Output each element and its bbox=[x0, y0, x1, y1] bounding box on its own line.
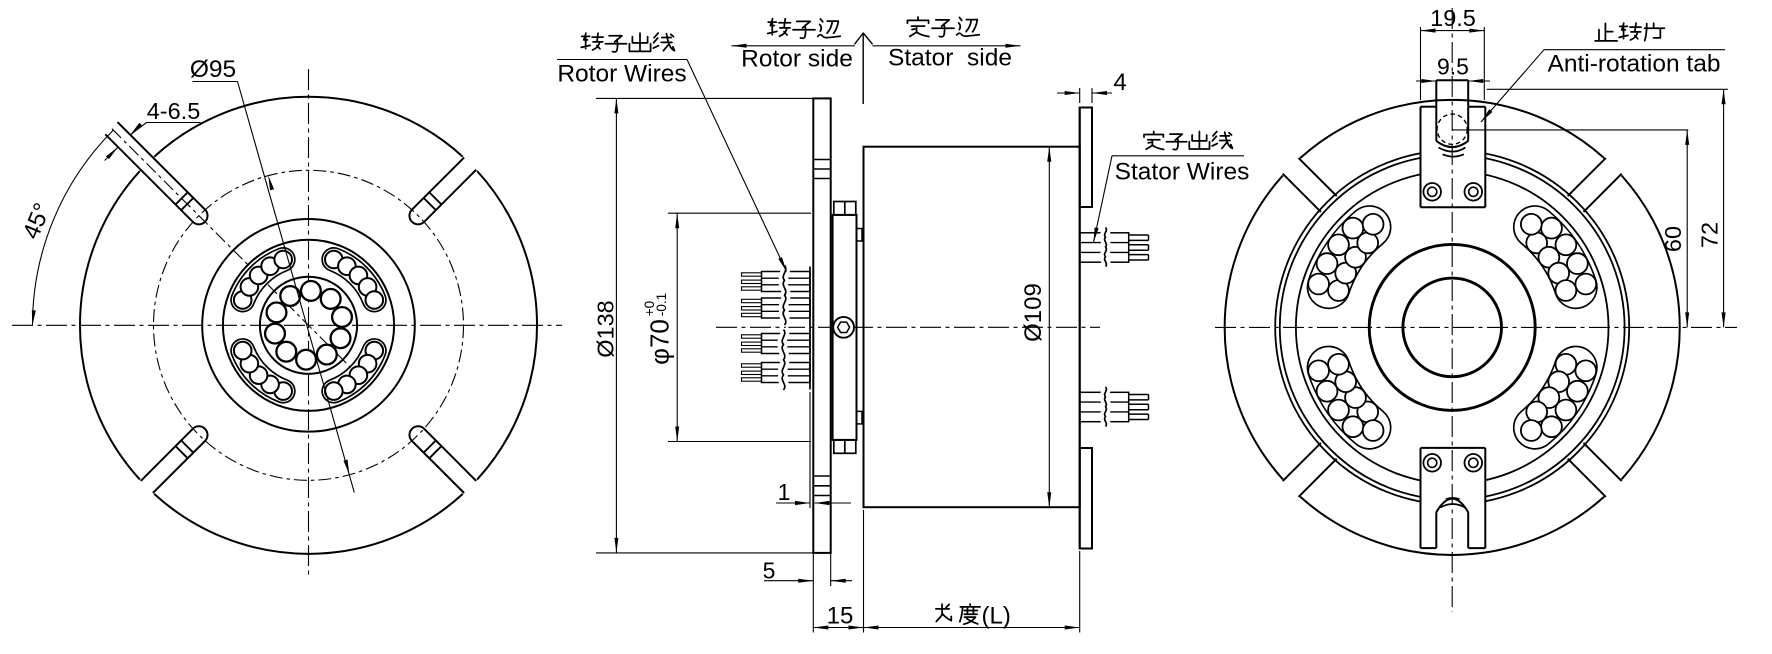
svg-text:72: 72 bbox=[1697, 222, 1723, 248]
svg-text:Ø95: Ø95 bbox=[190, 56, 236, 83]
svg-text:φ70: φ70 bbox=[645, 319, 675, 365]
svg-text:9.5: 9.5 bbox=[1437, 54, 1469, 80]
svg-text:-0.1: -0.1 bbox=[654, 293, 669, 316]
svg-text:19.5: 19.5 bbox=[1430, 5, 1476, 31]
svg-text:5: 5 bbox=[763, 558, 776, 584]
svg-text:Rotor Wires: Rotor Wires bbox=[557, 61, 686, 88]
svg-text:(L): (L) bbox=[982, 603, 1011, 630]
svg-text:Stator Wires: Stator Wires bbox=[1115, 159, 1250, 186]
svg-text:Ø109: Ø109 bbox=[1020, 283, 1047, 342]
svg-text:Anti-rotation tab: Anti-rotation tab bbox=[1548, 51, 1721, 78]
svg-text:Rotor side: Rotor side bbox=[741, 46, 853, 73]
svg-text:15: 15 bbox=[827, 603, 854, 630]
svg-text:60: 60 bbox=[1660, 226, 1686, 252]
svg-text:1: 1 bbox=[778, 479, 791, 505]
svg-text:4-6.5: 4-6.5 bbox=[147, 98, 201, 124]
svg-text:4: 4 bbox=[1113, 69, 1126, 96]
svg-text:Ø138: Ø138 bbox=[593, 300, 619, 358]
svg-text:Stator side: Stator side bbox=[888, 45, 1012, 72]
